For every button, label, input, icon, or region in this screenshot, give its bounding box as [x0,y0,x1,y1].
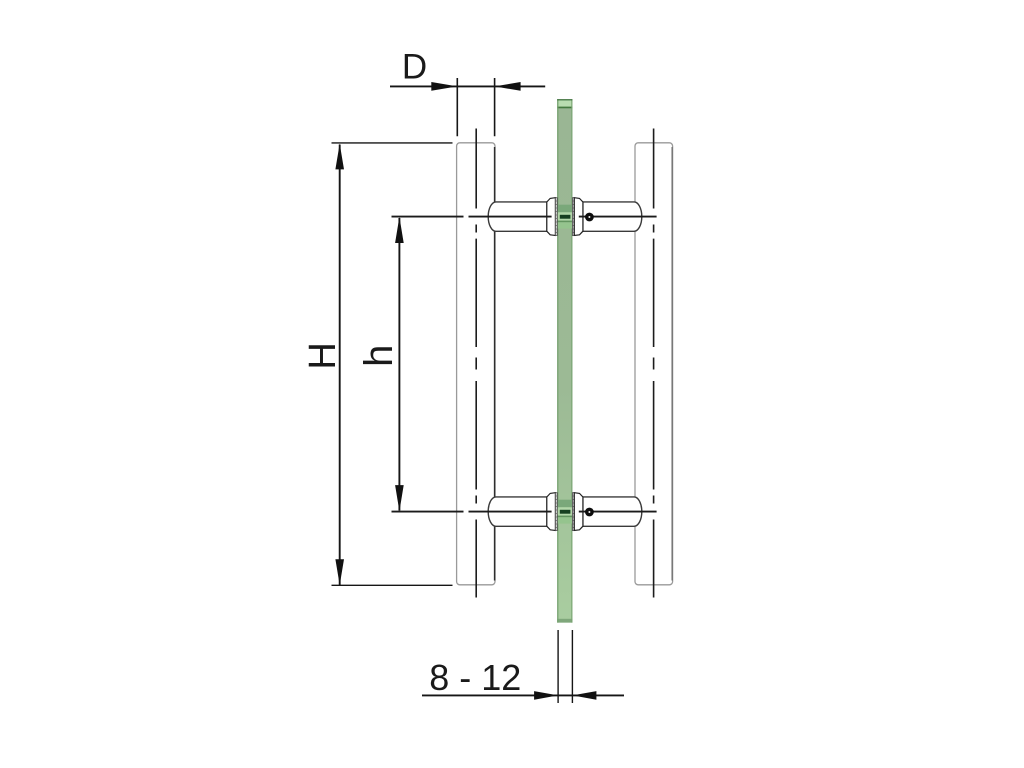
svg-text:D: D [402,47,427,86]
svg-text:8 - 12: 8 - 12 [429,657,521,698]
svg-text:H: H [302,342,344,369]
svg-text:h: h [357,345,401,367]
